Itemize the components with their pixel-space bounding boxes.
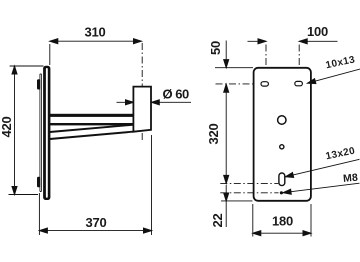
pole spigot: [133, 87, 151, 132]
slot 13x20: [279, 173, 285, 186]
svg-text:13x20: 13x20: [325, 146, 356, 163]
middle hole: [278, 116, 286, 124]
right slot centerline vertical (dash-dot): [298, 45, 300, 92]
M8 hole centerline (dash-dot): [220, 192, 278, 194]
dimension 22 line: [225, 185, 227, 227]
top mounting tab: [37, 79, 40, 89]
brace upper edge: [50, 125, 134, 132]
small hole: [280, 145, 284, 149]
M8 hole dot: [280, 191, 283, 194]
dimension diameter 60 left arrow line: [117, 101, 134, 103]
brace lower edge: [50, 132, 134, 139]
dimension 310 line: [50, 40, 142, 42]
plate bottom extension line: [221, 200, 253, 202]
slot 10x13 left: [261, 82, 268, 86]
svg-text:M8: M8: [343, 172, 359, 185]
svg-text:100: 100: [307, 24, 328, 39]
slot 10x13 right: [295, 81, 303, 85]
dimension 50 line: [225, 41, 227, 68]
svg-text:310: 310: [84, 25, 105, 40]
wall plate side view: [43, 66, 50, 200]
bottom mounting tab: [37, 177, 40, 188]
dimension 180 extension line left: [252, 204, 254, 237]
dimension 420 extension line bottom: [9, 194, 39, 196]
slot row centerline (dash-dot): [216, 83, 311, 85]
centerline pole (dash-dot): [141, 43, 143, 86]
dimension 100 line right part: [299, 40, 337, 42]
dimension 100 line left part: [248, 40, 267, 42]
svg-text:370: 370: [85, 215, 106, 230]
svg-text:50: 50: [208, 41, 223, 55]
svg-text:180: 180: [272, 214, 293, 229]
label M8 leader: [283, 183, 360, 193]
dimension 370 extension line left: [38, 193, 40, 235]
dimension 370 line: [39, 230, 151, 232]
svg-text:10x13: 10x13: [325, 54, 356, 71]
dimension diameter 60 right arrow line: [151, 101, 191, 103]
dimension 180 line: [253, 232, 311, 234]
mounting plate front view: [254, 68, 311, 201]
dimension 370 extension line right: [151, 135, 153, 235]
dimension 420 line: [14, 66, 16, 195]
svg-text:Ø 60: Ø 60: [163, 86, 189, 101]
left slot centerline vertical (dash-dot): [265, 45, 267, 92]
spacer bar side view: [40, 74, 42, 193]
dimension 320 line: [225, 84, 227, 183]
arm top wall: [50, 114, 134, 117]
dimension 310 extension line left: [49, 44, 51, 65]
svg-text:420: 420: [0, 116, 14, 137]
dimension 180 extension line right: [310, 204, 312, 237]
arm bottom wall: [50, 123, 134, 125]
plate top extension line: [215, 67, 253, 69]
slot 13x20 centerline (dash-dot): [220, 183, 278, 185]
dimension 420 extension line top: [10, 65, 44, 67]
svg-text:22: 22: [210, 213, 225, 227]
svg-text:320: 320: [206, 123, 221, 144]
label 10x13 leader: [308, 69, 360, 83]
label 13x20 leader: [285, 159, 359, 177]
